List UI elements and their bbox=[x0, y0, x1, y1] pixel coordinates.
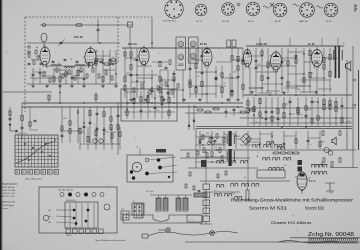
svg-text:EF 89: EF 89 bbox=[248, 21, 254, 23]
svg-text:LB1-LB4 (L1): LB1-LB4 (L1) bbox=[66, 200, 76, 202]
capacitor C26 bbox=[271, 110, 274, 112]
right top rail y46 bbox=[246, 45, 344, 47]
capacitor C11 bbox=[201, 54, 204, 56]
resistor R81 bbox=[161, 97, 163, 102]
knob f bbox=[145, 172, 149, 176]
resistor R24 bbox=[231, 56, 233, 61]
capacitor C32 bbox=[61, 134, 64, 136]
wire bbox=[79, 127, 81, 150]
humps row 5 bbox=[216, 161, 224, 163]
knob c bbox=[158, 166, 162, 170]
Fi1 coil b bbox=[178, 54, 184, 60]
board circle right bbox=[104, 204, 110, 210]
resistor R26 bbox=[237, 56, 239, 61]
resistor R4 bbox=[77, 70, 79, 75]
tone pot bbox=[246, 190, 249, 200]
left hanging column x10 bbox=[9, 107, 11, 122]
resistor R18 bbox=[189, 83, 191, 88]
svg-text:0,1: 0,1 bbox=[284, 165, 287, 167]
capacitor C24 bbox=[265, 110, 268, 112]
wire bbox=[103, 107, 105, 143]
svg-text:Gemessen mit: Gemessen mit bbox=[2, 201, 15, 204]
resistor R56 bbox=[317, 116, 319, 120]
bus y108 right bbox=[243, 107, 356, 109]
wire bbox=[133, 91, 135, 119]
wire bbox=[111, 127, 113, 150]
junction bbox=[235, 135, 237, 137]
resistor R68 bbox=[103, 112, 105, 117]
capacitor C43 bbox=[161, 102, 164, 104]
junction bbox=[115, 62, 117, 64]
FM resistor chain right bbox=[98, 59, 103, 61]
svg-text:EC 92: EC 92 bbox=[196, 21, 203, 23]
power extra wires bbox=[206, 149, 226, 151]
resistor R29 bbox=[242, 85, 244, 90]
tube V4 EF89 bbox=[202, 49, 212, 66]
capacitor C9 bbox=[173, 72, 176, 74]
resistor R44 bbox=[247, 108, 249, 113]
squiggle mark b bbox=[293, 4, 299, 6]
svg-text:ECC 85: ECC 85 bbox=[74, 36, 83, 39]
wire bbox=[221, 66, 223, 98]
jack circle b bbox=[328, 151, 332, 155]
knob leader lines bbox=[148, 157, 176, 160]
svg-text:Obere LWK geändert: Obere LWK geändert bbox=[25, 178, 42, 181]
IF extra dots bbox=[130, 57, 131, 58]
wire bbox=[59, 68, 61, 84]
terminal verticals bbox=[69, 203, 71, 227]
resistor R67 bbox=[89, 110, 91, 115]
wire bbox=[283, 97, 285, 126]
capacitor C4 bbox=[83, 77, 86, 79]
svg-text:8p: 8p bbox=[36, 47, 38, 49]
resistor R47 bbox=[259, 112, 261, 116]
wire bbox=[281, 48, 283, 93]
wire bbox=[247, 97, 249, 126]
resistor R46 bbox=[259, 98, 261, 103]
resistor R75 bbox=[111, 134, 113, 139]
junction bbox=[115, 73, 117, 75]
svg-text:0,25: 0,25 bbox=[307, 109, 311, 111]
right extra dots bbox=[261, 55, 262, 56]
wire bbox=[151, 70, 153, 98]
humps row 8 bbox=[311, 172, 319, 174]
drawing number underline bbox=[290, 237, 360, 239]
fuse box left detail bbox=[132, 203, 144, 215]
connector dark block a bbox=[298, 160, 303, 165]
wire above EM34 y164 bbox=[311, 164, 328, 166]
capacitor C19 bbox=[255, 66, 258, 68]
svg-text:ECH 81: ECH 81 bbox=[222, 21, 230, 23]
Fi2 coil a bbox=[190, 41, 196, 47]
board right striped component bbox=[134, 204, 143, 218]
wire bbox=[317, 97, 319, 126]
capacitor C22 bbox=[281, 76, 284, 78]
svg-text:→a-W: →a-W bbox=[345, 121, 351, 123]
capacitor C1 bbox=[32, 73, 35, 75]
right mesh links bbox=[248, 55, 262, 57]
FM left small parts bbox=[28, 53, 30, 58]
svg-text:50: 50 bbox=[70, 59, 72, 61]
tube V6 EL84 bbox=[271, 52, 282, 70]
capacitor C31 bbox=[341, 104, 344, 106]
capacitor C29 bbox=[305, 114, 308, 116]
svg-text:47k: 47k bbox=[237, 136, 240, 138]
wire bbox=[199, 131, 201, 149]
wire bbox=[247, 131, 249, 149]
capacitor C41 bbox=[147, 94, 150, 96]
strip extra parts bbox=[185, 184, 187, 188]
FM coil row 2 bbox=[64, 67, 74, 68]
mains plug b bbox=[210, 231, 215, 236]
wire right of EM34 y167 bbox=[330, 167, 358, 169]
svg-text:100: 100 bbox=[106, 65, 109, 67]
humps row 4 bbox=[268, 168, 276, 170]
svg-text:6,3: 6,3 bbox=[214, 147, 217, 149]
svg-text:70: 70 bbox=[319, 118, 321, 120]
wire bbox=[154, 91, 156, 119]
wire bbox=[71, 68, 73, 84]
resistor R32 bbox=[267, 63, 269, 68]
svg-text:1k: 1k bbox=[46, 67, 48, 69]
resistor R72 bbox=[79, 128, 81, 133]
resistor R12 bbox=[130, 52, 132, 56]
dipole antenna symbol bbox=[270, 3, 274, 7]
wire bbox=[95, 50, 97, 84]
trimmer capacitor T1 bbox=[60, 41, 63, 43]
resistor R11 bbox=[124, 85, 126, 90]
resistor R7 bbox=[102, 77, 104, 82]
junction bbox=[199, 141, 201, 143]
board circle left bbox=[43, 215, 48, 220]
capacitor C25 bbox=[265, 117, 268, 119]
left parts x30 bbox=[29, 107, 31, 130]
wire bbox=[305, 97, 307, 126]
junction bbox=[271, 135, 273, 137]
resistor R76 bbox=[119, 132, 121, 137]
resistor R19 bbox=[195, 64, 197, 69]
humps row 7 bbox=[311, 165, 319, 167]
resistor R21 bbox=[201, 81, 203, 86]
svg-text:1k: 1k bbox=[269, 55, 271, 57]
resistor R61 bbox=[335, 101, 337, 106]
resistor R3 bbox=[65, 72, 67, 76]
tube socket diagram EABC80 bbox=[300, 3, 315, 18]
junction bbox=[167, 85, 169, 87]
resistor R16 bbox=[173, 77, 175, 81]
lower bus y181 bbox=[200, 180, 290, 182]
svg-text:6 ABC 80: 6 ABC 80 bbox=[256, 43, 267, 46]
svg-text:Rö1 Rö2 Rö5: Rö1 Rö2 Rö5 bbox=[163, 21, 176, 23]
bus B+ y103 bbox=[22, 102, 243, 104]
wire bbox=[87, 127, 89, 150]
scan speckles bbox=[146, 49, 149, 52]
wire bbox=[201, 48, 203, 98]
svg-text:Obere LW-Ansicht von hinten ge: Obere LW-Ansicht von hinten gesehen bbox=[95, 239, 126, 242]
bus y95 right bbox=[243, 94, 352, 96]
wire bbox=[283, 131, 285, 149]
cable curve bbox=[148, 232, 238, 237]
svg-text:30p: 30p bbox=[321, 141, 324, 143]
resistor R87 bbox=[319, 142, 321, 147]
resistor R37 bbox=[309, 50, 311, 55]
lower right box outline bbox=[257, 170, 285, 178]
resistor R23 bbox=[221, 87, 223, 92]
resistor R86 bbox=[295, 139, 297, 144]
right mid bus y66 bbox=[256, 65, 296, 67]
resistor R42 bbox=[329, 72, 331, 77]
hatch band under drawing number bbox=[308, 239, 310, 244]
IF mid bus y86 bbox=[190, 85, 226, 87]
FM coil row 1 bbox=[51, 65, 61, 66]
resistor R85 bbox=[247, 138, 249, 142]
capacitor C45 bbox=[283, 142, 286, 144]
crossover chain boxes bbox=[203, 184, 210, 190]
bridge rectifier diamond bbox=[241, 134, 252, 145]
wire bbox=[211, 131, 213, 149]
resistor R38 bbox=[309, 72, 311, 77]
svg-text:500: 500 bbox=[105, 131, 108, 133]
wire bbox=[32, 68, 34, 84]
svg-text:30: 30 bbox=[58, 63, 60, 65]
svg-text:LB1 LB2 LB3 LB4: LB1 LB2 LB3 LB4 bbox=[58, 189, 73, 191]
voltage selector winding C bbox=[176, 198, 181, 211]
power extra parts bbox=[199, 139, 201, 144]
wire bbox=[83, 68, 85, 84]
power box parts bbox=[202, 135, 204, 140]
wavy registration line bbox=[278, 241, 338, 243]
svg-text:500: 500 bbox=[233, 72, 236, 74]
wire bbox=[130, 48, 132, 98]
dashed FM box right edge bbox=[117, 17, 119, 63]
lower bus y168 bbox=[188, 167, 258, 169]
board bottom squares bbox=[66, 229, 71, 234]
svg-text:5k: 5k bbox=[112, 57, 114, 59]
svg-text:220: 220 bbox=[111, 61, 114, 63]
capacitor C14 bbox=[215, 77, 218, 79]
wire drop x248 bbox=[247, 150, 249, 187]
capacitor C37 bbox=[103, 128, 106, 130]
svg-text:LP2: LP2 bbox=[121, 209, 124, 211]
junction bbox=[151, 87, 153, 89]
wire bbox=[161, 91, 163, 119]
junction bbox=[136, 80, 138, 82]
AF small tube circles bbox=[93, 139, 97, 143]
panel label plate dark bbox=[156, 149, 166, 153]
wire bbox=[329, 97, 331, 126]
resistor R64 bbox=[61, 126, 63, 130]
crossover chain wire bbox=[205, 190, 207, 217]
svg-text:100: 100 bbox=[126, 73, 129, 75]
svg-text:70: 70 bbox=[255, 122, 257, 124]
resistor R58 bbox=[323, 104, 325, 109]
long vertical x194 bbox=[193, 105, 195, 130]
resistor R60 bbox=[329, 105, 331, 110]
wire bbox=[124, 48, 126, 98]
svg-text:EF 89: EF 89 bbox=[200, 43, 207, 46]
wire bbox=[61, 107, 63, 143]
wire bbox=[223, 131, 225, 149]
speaker SP2 bbox=[332, 137, 336, 145]
wire bbox=[167, 70, 169, 98]
junction bbox=[102, 62, 104, 64]
wire bbox=[173, 70, 175, 98]
wire bbox=[323, 48, 325, 93]
wire bbox=[259, 97, 261, 126]
wire bbox=[271, 97, 273, 126]
resistor R57 bbox=[323, 100, 325, 105]
AF left parts x22 bbox=[21, 116, 23, 121]
resistor R13 bbox=[130, 65, 132, 70]
resistor R30 bbox=[261, 51, 263, 55]
grid dark cells bbox=[24, 143, 26, 145]
svg-text:8p: 8p bbox=[311, 72, 313, 74]
junction bbox=[259, 143, 261, 145]
junction bbox=[195, 86, 197, 88]
IF transformer Fi1 dashed box bbox=[176, 37, 186, 70]
voltage selector winding A bbox=[156, 198, 161, 211]
Fi2 coil b bbox=[190, 53, 196, 59]
FM vertical x60 drop bbox=[59, 84, 61, 103]
resistor R9 bbox=[124, 52, 126, 56]
trimmer mark near ECH81 bbox=[237, 3, 240, 6]
mid parts above power box bbox=[198, 109, 203, 111]
svg-text:30p: 30p bbox=[80, 71, 83, 73]
knob g bbox=[168, 176, 170, 178]
bus y127 double line bbox=[196, 126, 352, 128]
resistor R43 bbox=[247, 101, 249, 106]
right rail stubs up bbox=[259, 38, 261, 46]
tube V7 EL84b bbox=[312, 50, 323, 67]
IF transformer Fi2 dashed box bbox=[189, 37, 199, 63]
wire bbox=[335, 97, 337, 126]
capacitor C_drop x98 bbox=[97, 28, 100, 30]
junction bbox=[154, 97, 156, 99]
arrow marks on verticals bbox=[188, 124, 190, 127]
board connector circles bbox=[60, 193, 64, 197]
Fi1 trimmer marks bbox=[178, 63, 184, 65]
wire drop x206b bbox=[205, 150, 207, 181]
wire bbox=[65, 68, 67, 84]
board right plug bbox=[121, 211, 129, 220]
right edge arrow b bbox=[352, 104, 356, 107]
svg-text:50: 50 bbox=[223, 83, 225, 85]
resistor pair above x228 bbox=[227, 40, 231, 47]
resistor R82 bbox=[168, 98, 170, 103]
junction dot top rail bbox=[97, 24, 99, 26]
junction bbox=[317, 101, 319, 103]
alignment grid horizontals bbox=[15, 138, 58, 140]
power box wires bbox=[196, 136, 226, 138]
voltage selector winding B bbox=[163, 198, 168, 211]
crossover bottom wire bbox=[205, 222, 207, 225]
coil parts x158-170 bbox=[159, 62, 161, 67]
junction bbox=[303, 53, 305, 55]
resistor R17 bbox=[189, 80, 191, 84]
resistor R15 bbox=[159, 88, 161, 93]
wire bbox=[309, 48, 311, 93]
capacitor C18 bbox=[255, 59, 258, 61]
svg-text:Chassis: Chassis bbox=[2, 208, 8, 210]
resistor R25 bbox=[231, 91, 233, 95]
resistor R33 bbox=[287, 61, 289, 65]
wire bbox=[89, 107, 91, 143]
junction bbox=[103, 133, 105, 135]
tube socket diagram EF89a bbox=[246, 2, 260, 16]
resistor R51 bbox=[283, 112, 285, 117]
svg-text:2n: 2n bbox=[79, 78, 81, 80]
IF tube drop wires bbox=[143, 65, 145, 104]
svg-text:220: 220 bbox=[95, 51, 98, 53]
pushbutton squares row bbox=[15, 170, 20, 175]
FM grounds bbox=[32, 85, 34, 86]
chassis bracket outline bbox=[123, 215, 202, 223]
wire bbox=[117, 107, 119, 143]
svg-text:EL 84: EL 84 bbox=[308, 43, 315, 46]
svg-text:30p: 30p bbox=[297, 89, 300, 91]
power transformer winding bar upper bbox=[229, 131, 232, 146]
dashed FM box left edge bbox=[24, 17, 26, 112]
squiggle mark a bbox=[263, 6, 269, 8]
svg-text:u.Zyl: u.Zyl bbox=[329, 192, 333, 194]
tube socket diagram ECH81 bbox=[222, 3, 235, 16]
tube V2 ECC85 triode b bbox=[85, 48, 96, 66]
tube socket diagram EL84 bbox=[324, 3, 338, 17]
strip resistors bbox=[187, 153, 189, 157]
dashed FM box top edge bbox=[25, 16, 152, 18]
svg-text:Abgleichpunkte:: Abgleichpunkte: bbox=[2, 183, 18, 186]
humps row 3 bbox=[262, 158, 270, 160]
svg-text:Scerzo M 531: Scerzo M 531 bbox=[249, 206, 288, 211]
svg-text:500: 500 bbox=[63, 118, 66, 120]
wire bbox=[271, 131, 273, 149]
svg-text:EF 89: EF 89 bbox=[275, 21, 281, 23]
capacitor C36 bbox=[96, 127, 99, 129]
capacitor C17 bbox=[242, 59, 245, 61]
mid caps above power box bbox=[225, 110, 228, 112]
compressor inner wires bbox=[123, 102, 175, 104]
resistor R34 bbox=[287, 82, 289, 87]
right tube drops bbox=[249, 67, 251, 95]
bottom rule line bbox=[185, 241, 360, 243]
terminal circle on rail bbox=[43, 24, 46, 27]
resistor R69 bbox=[110, 117, 112, 122]
wire bbox=[231, 48, 233, 98]
wire bbox=[109, 50, 111, 84]
capacitor C20 bbox=[267, 76, 270, 78]
capacitor C44 bbox=[211, 136, 214, 138]
wire bbox=[96, 107, 98, 143]
IF grounds bbox=[130, 98, 132, 99]
resistor R39 bbox=[323, 57, 325, 63]
capacitor C21 bbox=[281, 60, 284, 62]
resistor R59 bbox=[329, 101, 331, 106]
wire bbox=[110, 107, 112, 143]
svg-text:20 kΩ/V gegen: 20 kΩ/V gegen bbox=[2, 205, 14, 207]
resistor R77 bbox=[126, 111, 128, 116]
resistor R20 bbox=[195, 88, 197, 93]
wire x152 drop bbox=[151, 17, 153, 48]
wire bbox=[235, 131, 237, 149]
right bus vertical x353 bbox=[352, 46, 354, 168]
FM mid horizontal y66 bbox=[45, 65, 90, 67]
wire bbox=[259, 131, 261, 149]
speaker SP1 bbox=[346, 61, 351, 71]
axis arrow symbol bbox=[10, 123, 18, 131]
svg-text:Scerzo 532: Scerzo 532 bbox=[305, 206, 325, 211]
tube socket diagram EF89b bbox=[273, 3, 287, 17]
FM mid horizontal y78 bbox=[30, 77, 58, 79]
